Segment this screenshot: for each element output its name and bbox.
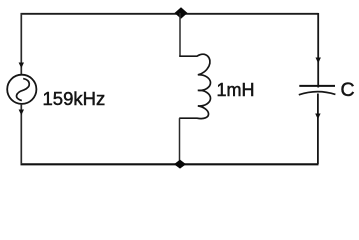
wire right lower xyxy=(317,94,319,165)
arrow below source xyxy=(19,110,24,116)
wire middle upper xyxy=(179,13,181,56)
wire middle lower xyxy=(179,118,181,164)
wire bottom rail xyxy=(21,163,319,165)
arrow above source xyxy=(19,63,24,69)
arrow below capacitor xyxy=(315,114,320,120)
capacitor C1 xyxy=(299,86,336,95)
arrow above capacitor xyxy=(316,58,321,64)
ac source V1 xyxy=(7,75,36,104)
wire top rail xyxy=(21,13,319,15)
inductor L1 xyxy=(179,54,210,118)
wire right upper xyxy=(317,13,319,88)
junction dot bottom xyxy=(174,160,186,169)
junction dot top xyxy=(175,7,188,19)
wire left lower xyxy=(20,104,22,164)
wire left upper xyxy=(20,13,22,75)
svg-text:1mH: 1mH xyxy=(217,80,255,100)
svg-text:159kHz: 159kHz xyxy=(43,88,106,109)
svg-text:C: C xyxy=(341,79,355,101)
